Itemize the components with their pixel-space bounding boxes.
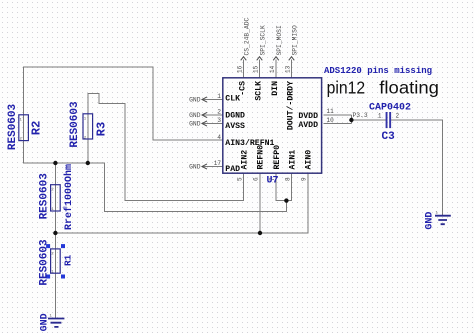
svg-text:GND: GND <box>189 97 201 104</box>
resistor Rref body <box>51 185 61 211</box>
svg-text:4: 4 <box>217 134 221 141</box>
svg-text:SPI_SCLK: SPI_SCLK <box>260 25 267 55</box>
pin 13 stub <box>291 60 293 78</box>
svg-text:SPI_MISO: SPI_MISO <box>292 25 299 55</box>
junction node P3.3 DVDD/AVDD <box>349 118 353 122</box>
svg-text:CS_24B_ADC: CS_24B_ADC <box>244 17 251 55</box>
resistor R3 body <box>83 114 93 139</box>
svg-text:8: 8 <box>285 177 292 181</box>
svg-text:SPI_MOSI: SPI_MOSI <box>276 25 283 55</box>
svg-text:R2: R2 <box>29 121 43 135</box>
svg-text:AIN3/REFN1: AIN3/REFN1 <box>225 138 274 148</box>
wire REFN0 stub down <box>259 173 261 234</box>
arrowhead of GND net label pin 17 <box>202 164 207 169</box>
svg-text:AVSS: AVSS <box>225 122 245 131</box>
junction node Rref bottom / R1 top <box>53 231 57 235</box>
arrowhead of net label SPI_SCLK pin 15 <box>257 57 263 61</box>
svg-text:GND: GND <box>189 164 201 171</box>
svg-text:pin12: pin12 <box>327 78 366 98</box>
selection handle R1 top-right <box>61 244 65 248</box>
svg-text:REFN0: REFN0 <box>256 145 265 170</box>
svg-text:REFP0: REFP0 <box>273 145 282 170</box>
svg-text:2: 2 <box>396 112 400 119</box>
pin 16 stub <box>243 60 245 78</box>
capacitor C3 <box>386 112 392 128</box>
svg-text:C3: C3 <box>382 131 396 143</box>
selection handle R1 bottom-left <box>46 275 50 279</box>
svg-text:AVDD: AVDD <box>298 121 318 130</box>
ground symbol bottom-left GND <box>48 319 64 327</box>
resistor R1 body <box>51 249 61 273</box>
pin 1 stub <box>202 99 224 101</box>
svg-text:R3: R3 <box>95 122 109 136</box>
svg-text:RES0603: RES0603 <box>7 104 19 151</box>
arrowhead of net label CS_24B_ADC pin 16 <box>241 57 247 61</box>
svg-text:6: 6 <box>253 177 260 181</box>
svg-text:AIN1: AIN1 <box>288 150 297 170</box>
IC U7 ADS1220 body <box>223 78 322 173</box>
wire DVDD pin11 stub <box>324 114 352 116</box>
svg-text:GND: GND <box>189 121 201 128</box>
svg-text:DVDD: DVDD <box>298 112 318 121</box>
svg-text:9: 9 <box>301 177 308 181</box>
svg-text:AIN2: AIN2 <box>240 150 249 170</box>
svg-text:GND: GND <box>189 112 201 119</box>
wire R2 top to IC pin4 AIN3/REFN1 <box>23 67 223 140</box>
svg-text:-CS: -CS <box>239 81 248 96</box>
arrowhead of GND net label pin 2 <box>202 112 207 117</box>
svg-text:16: 16 <box>237 65 244 73</box>
pin 3 stub <box>202 123 224 125</box>
svg-text:GND: GND <box>424 212 435 230</box>
pin 17 stub <box>202 166 224 168</box>
wire R2 bottom along y163 down to y211.5 to REFP0/AIN1 tie <box>23 115 286 212</box>
svg-text:P3.3: P3.3 <box>353 112 368 119</box>
ground symbol right GND <box>435 216 451 225</box>
svg-text:RES0603: RES0603 <box>39 173 51 220</box>
wire R3 top zigzag to AIN2 <box>88 94 244 201</box>
arrowhead of net label SPI_MISO pin 13 <box>289 57 295 61</box>
svg-text:U7: U7 <box>267 176 279 187</box>
svg-text:14: 14 <box>269 65 276 73</box>
svg-text:17: 17 <box>214 160 222 167</box>
svg-text:DGND: DGND <box>225 112 245 121</box>
junction node R3 bottom <box>86 161 90 165</box>
wire REFP0 AIN1 tie bar <box>276 173 292 201</box>
svg-text:ADS1220 pins missing: ADS1220 pins missing <box>324 66 432 76</box>
selection handle R1 bottom-right <box>61 275 65 279</box>
svg-text:3: 3 <box>217 117 221 124</box>
svg-text:Rref1000Ohm: Rref1000Ohm <box>63 164 75 230</box>
wire AVDD pin10 stub <box>324 115 352 124</box>
wire R3 body through to y163 junction <box>87 115 89 164</box>
svg-text:SCLK: SCLK <box>255 81 264 101</box>
svg-text:1: 1 <box>378 112 382 119</box>
junction node REFP0/AIN1 tie <box>284 198 288 202</box>
svg-text:1: 1 <box>217 93 221 100</box>
svg-text:DIN: DIN <box>271 81 280 96</box>
pin 14 stub <box>275 60 277 78</box>
selection handle R1 top-left <box>46 244 50 248</box>
pin 2 stub <box>202 114 224 116</box>
arrowhead of GND net label pin 3 <box>202 121 207 126</box>
svg-text:AIN0: AIN0 <box>304 150 313 170</box>
svg-text:CAP0402: CAP0402 <box>369 102 411 113</box>
wire Rref top to bottom through body <box>54 163 56 233</box>
resistor R2 body <box>19 115 29 141</box>
wire C3 to GND <box>390 120 443 215</box>
svg-text:10: 10 <box>327 117 335 124</box>
svg-text:RES0603: RES0603 <box>69 101 81 148</box>
svg-text:11: 11 <box>327 108 335 115</box>
wire R1 top to GND through body <box>54 233 56 319</box>
svg-text:PAD: PAD <box>225 165 240 174</box>
svg-text:15: 15 <box>253 65 260 73</box>
svg-text:R1: R1 <box>63 254 74 266</box>
svg-text:13: 13 <box>285 65 292 73</box>
junction node REFN0 on bottom bus <box>258 231 262 235</box>
wire P3.3 node to C3 <box>351 119 386 121</box>
svg-text:RES0603: RES0603 <box>39 239 51 286</box>
pin 15 stub <box>259 60 261 78</box>
arrowhead of net label SPI_MOSI pin 14 <box>273 57 279 61</box>
wire bottom bus to AIN0 <box>55 173 308 234</box>
arrowhead of GND net label pin 1 <box>202 97 207 102</box>
svg-text:5: 5 <box>237 177 244 181</box>
svg-text:DOUT/-DRDY: DOUT/-DRDY <box>286 81 296 130</box>
junction node Rref top / R2-R3 net <box>53 161 57 165</box>
svg-text:2: 2 <box>217 108 221 115</box>
svg-text:floating: floating <box>379 78 439 98</box>
